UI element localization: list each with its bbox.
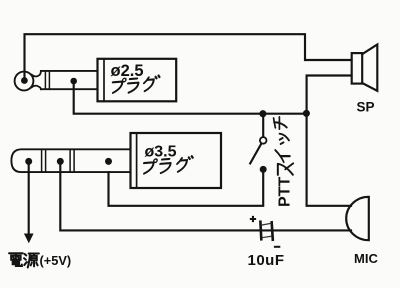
3.5mm plug J2 body collar line [136, 133, 138, 188]
wire from 2.5mm plug tip to SP top terminal [25, 34, 352, 80]
PTT switch S1 lever [250, 144, 261, 163]
microphone MIC capsule [346, 197, 369, 240]
glyph su [278, 163, 293, 175]
3.5mm plug J2 sleeve terminal dot [105, 158, 112, 165]
2.5mm plug J1 body collar line [103, 59, 105, 102]
2.5mm plug J1 sleeve terminal dot [70, 78, 77, 85]
capacitor C1 left plate [259, 222, 262, 240]
3.5mm plug J2 separator band 1 [42, 149, 46, 172]
junction node at SP/MIC vertical [303, 110, 310, 117]
2.5mm plug J1 body box [98, 59, 177, 102]
wire from 2.5mm plug sleeve to junction bus [74, 82, 307, 114]
glyph ra [127, 78, 139, 92]
glyph small-tsu [280, 134, 289, 144]
3.5mm plug J2 separator band 2 [70, 149, 74, 172]
glyph chi [274, 117, 287, 129]
svg-text:ø2.5: ø2.5 [111, 62, 144, 80]
2.5mm plug J1 tip circle [15, 72, 34, 91]
capacitor C1 sketch strokes [262, 223, 272, 237]
label puragu for 2.5mm plug [110, 75, 161, 94]
3.5mm plug J2 barrel outline [11, 149, 130, 172]
wire 3.5mm plug ring to capacitor to MIC bottom terminal [60, 161, 351, 230]
label suicchi (PTT switch, vertical) [274, 117, 294, 175]
svg-text:PTT: PTT [277, 177, 294, 207]
2.5mm plug J1 barrel [41, 71, 98, 89]
3.5mm plug J2 body box [131, 133, 222, 188]
wire SP bottom terminal down through junction to MIC top terminal [307, 76, 352, 206]
svg-text:(+5V): (+5V) [40, 253, 72, 268]
2.5mm plug J1 neck [32, 71, 41, 89]
PTT switch S1 upper contact circle [260, 137, 267, 144]
glyph gu [143, 75, 160, 91]
glyph pu [143, 159, 158, 174]
svg-text:MIC: MIC [354, 251, 378, 266]
power supply arrowhead [24, 234, 34, 244]
junction node at PTT branch [259, 110, 266, 117]
speaker SP horn [362, 45, 377, 91]
glyph i [275, 150, 290, 162]
wire PTT switch lower contact to 3.5mm plug sleeve [109, 169, 264, 205]
3.5mm plug J2 tip terminal dot [25, 158, 32, 165]
glyph pu [111, 78, 126, 93]
2.5mm plug J1 insulator band [45, 71, 49, 89]
svg-text:ø3.5: ø3.5 [145, 144, 177, 161]
glyph ra [159, 159, 171, 173]
PTT switch S1 lower contact dot [260, 166, 267, 173]
label dengen (+5V) [9, 253, 39, 267]
svg-text:10uF: 10uF [248, 252, 285, 269]
label puragu for 3.5mm plug [142, 156, 195, 175]
wire 3.5mm plug tip to power arrow [28, 161, 30, 234]
2.5mm plug J1 tip terminal dot [21, 77, 28, 84]
glyph gen [24, 254, 39, 268]
glyph den [9, 253, 23, 266]
wire PTT switch upper contact to bus junction [262, 114, 264, 137]
speaker SP driver [352, 53, 363, 84]
capacitor plus sign [250, 216, 256, 222]
svg-text:SP: SP [357, 100, 375, 115]
3.5mm plug J2 ring terminal dot [57, 158, 64, 165]
glyph gu [176, 156, 193, 172]
capacitor minus sign [274, 246, 280, 248]
capacitor C1 right plate [272, 222, 273, 239]
